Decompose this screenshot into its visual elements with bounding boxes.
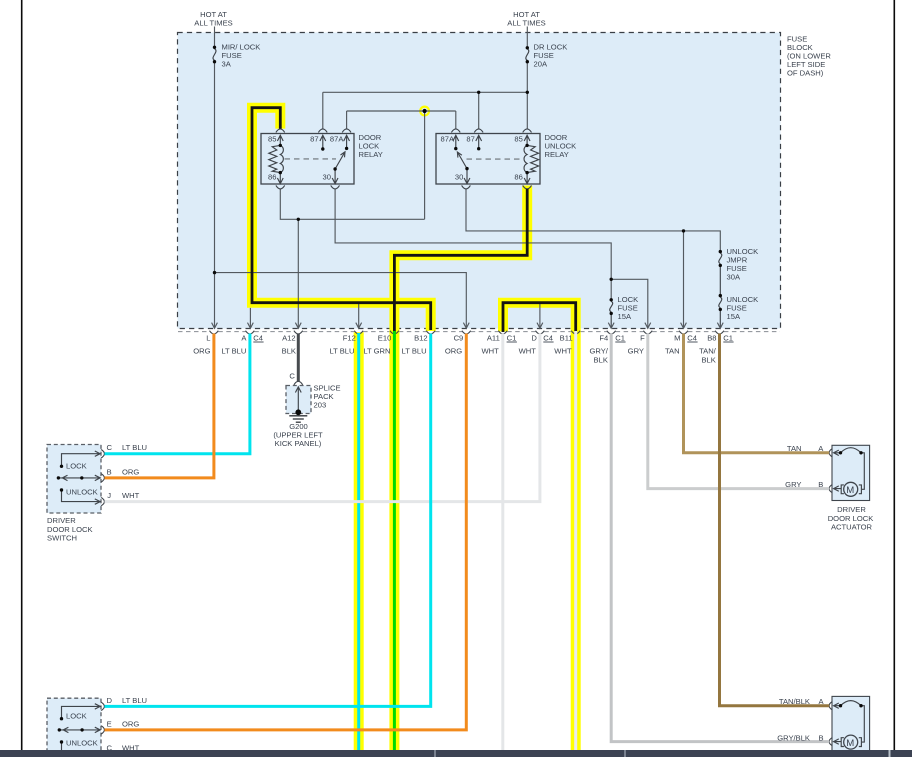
wire TAN M C4 to driver actuator A: [684, 334, 830, 453]
svg-text:ALL TIMES: ALL TIMES: [194, 19, 232, 28]
svg-text:85: 85: [514, 135, 522, 144]
pin B arrow and lead: [834, 739, 841, 744]
svg-text:A12: A12: [282, 333, 296, 342]
wire lock contact to D: [62, 704, 101, 719]
wire dome to motor: [861, 706, 864, 742]
highlight trace: relay1 85 to B12 (yellow band): [252, 108, 431, 331]
svg-text:F: F: [640, 333, 645, 342]
node actuator2 dome left: [839, 704, 842, 707]
node S1 arm right: [80, 476, 83, 479]
svg-text:LT BLU: LT BLU: [402, 347, 427, 356]
wire highlighted black core relay1 85 to B12: [252, 108, 431, 330]
wire relay1 30 net to lock fuse and F pin: [335, 189, 648, 328]
svg-text:ORG: ORG: [122, 720, 139, 729]
relay1 pin 86 lead: [277, 173, 283, 184]
relay2 pin 86 lead: [524, 173, 530, 184]
node lock fuse bottom: [610, 312, 613, 315]
wire thin feed to A C4 pin: [249, 308, 251, 328]
svg-text:F4: F4: [599, 333, 608, 342]
resistor coil relay1: [269, 145, 281, 172]
ground G200: [289, 416, 307, 422]
svg-text:LT BLU: LT BLU: [122, 696, 147, 705]
svg-text:LT BLU: LT BLU: [221, 347, 246, 356]
relay2 pin 87A lead: [453, 135, 459, 148]
svg-text:D: D: [106, 696, 112, 705]
node B+ net at 87: [477, 91, 480, 94]
motor brackets: [841, 485, 861, 494]
wire LT GRN E10 (highlighted): [393, 331, 396, 750]
splice pack arrow and lead: [295, 387, 301, 412]
node MIR fuse top: [213, 46, 216, 49]
wire TAN/BLK B8 C1 to passenger actuator A: [720, 334, 830, 706]
node S1 arm left: [57, 476, 60, 479]
svg-text:87: 87: [310, 135, 318, 144]
svg-text:ALL TIMES: ALL TIMES: [507, 19, 545, 28]
wire LT BLU B12 to passenger switch D: [105, 334, 431, 707]
wire LT BLU F12 (highlighted): [357, 333, 360, 750]
inductor arcs relay1: [280, 145, 283, 172]
svg-text:M: M: [674, 333, 680, 342]
svg-text:M: M: [846, 738, 854, 749]
wire WHT B11 (highlighted): [574, 331, 577, 750]
wire WHT D C4 to driver switch J: [105, 334, 540, 502]
svg-text:B8: B8: [707, 333, 716, 342]
wire MIR fuse to L pin: [214, 62, 216, 329]
wire GRY/BLK F4 C1 to passenger actuator B: [611, 334, 829, 742]
svg-text:E10: E10: [378, 333, 392, 342]
svg-text:RELAY: RELAY: [359, 150, 383, 159]
svg-text:WHT: WHT: [519, 347, 537, 356]
svg-text:D: D: [531, 333, 537, 342]
connector cups relay2 top: [451, 129, 531, 133]
pin A arrow and lead: [834, 450, 841, 455]
svg-text:87A: 87A: [441, 135, 455, 144]
node MIR fuse bottom: [213, 60, 216, 63]
svg-text:GRY: GRY: [628, 347, 644, 356]
svg-text:C4: C4: [543, 333, 553, 342]
svg-text:BLK: BLK: [701, 356, 715, 365]
pin B arrow and lead: [834, 486, 841, 491]
svg-text:UNLOCK: UNLOCK: [66, 487, 98, 496]
svg-text:TAN/BLK: TAN/BLK: [779, 697, 810, 706]
svg-text:LT GRN: LT GRN: [363, 347, 390, 356]
svg-text:LT BLU: LT BLU: [122, 443, 147, 452]
svg-text:WHT: WHT: [482, 347, 500, 356]
fuse MIR/LOCK 3A: [213, 49, 216, 60]
wire LT BLU A C4 to driver switch C: [105, 334, 250, 454]
driver door lock switch S1 dashed box: [47, 445, 101, 514]
node S2 arm left: [58, 728, 61, 731]
svg-text:OF DASH): OF DASH): [787, 69, 824, 78]
wire ORG C9 to passenger switch E: [105, 334, 467, 730]
svg-text:TAN: TAN: [787, 444, 802, 453]
svg-text:WHT: WHT: [122, 491, 140, 500]
motor M1 circle: [844, 482, 858, 496]
svg-text:3A: 3A: [222, 60, 232, 69]
svg-text:85: 85: [268, 135, 276, 144]
node relay2 coil bottom: [525, 171, 528, 174]
node ground net at A12: [297, 218, 300, 221]
highlight trace: F12 wire below block (yellow band): [354, 332, 364, 750]
node actuator1 dome left: [839, 451, 842, 454]
relay2 pin 87 lead: [476, 135, 482, 148]
svg-text:BLK: BLK: [282, 347, 296, 356]
svg-text:C4: C4: [253, 333, 263, 342]
svg-text:ORG: ORG: [193, 347, 210, 356]
highlight ring on splice node at 87A net: [420, 107, 429, 116]
svg-text:20A: 20A: [534, 60, 548, 69]
svg-text:GRY: GRY: [785, 480, 801, 489]
svg-text:30: 30: [323, 173, 331, 182]
svg-text:LOCK: LOCK: [66, 711, 87, 720]
svg-text:DRIVER: DRIVER: [47, 516, 76, 525]
svg-text:GRY/: GRY/: [589, 347, 608, 356]
node lock fuse top: [610, 298, 613, 301]
page right border: [893, 0, 895, 750]
svg-text:UNLOCK: UNLOCK: [66, 739, 98, 748]
wire lock contact to C: [62, 451, 101, 466]
svg-text:86: 86: [268, 173, 276, 182]
svg-text:C4: C4: [687, 333, 697, 342]
svg-text:B: B: [818, 733, 823, 742]
wire common arm to B: [58, 475, 100, 480]
relay1 pin 85 lead: [277, 135, 283, 145]
wire unlock contact down: [61, 742, 63, 752]
svg-text:C9: C9: [454, 333, 464, 342]
svg-text:ACTUATOR: ACTUATOR: [831, 523, 873, 532]
svg-text:RELAY: RELAY: [545, 150, 569, 159]
svg-text:15A: 15A: [727, 312, 741, 321]
svg-text:M: M: [846, 485, 854, 496]
svg-text:DOOR LOCK: DOOR LOCK: [47, 525, 93, 534]
op-amp? no: relay box U1 DOOR LOCK RELAY: [261, 134, 354, 185]
taskbar sliver: [0, 750, 912, 757]
svg-text:J: J: [107, 491, 111, 500]
passenger door lock actuator M2 box: [832, 696, 870, 751]
svg-text:DOOR LOCK: DOOR LOCK: [828, 514, 874, 523]
relay2 dashed coil-arm link: [467, 158, 524, 160]
connector cups relay1 bottom: [276, 185, 340, 189]
wire relay1 86 to ground net and A12 drop: [280, 189, 424, 328]
highlight trace: A11 to B11 pi-shape and down (yellow band): [503, 303, 576, 750]
highlight trace: relay2 86 to E10 and down (yellow band): [394, 186, 527, 751]
node relay2 87: [477, 147, 480, 150]
node relay1 30: [333, 167, 336, 170]
actuator dome arc: [841, 448, 862, 453]
svg-text:C: C: [106, 443, 112, 452]
wire ORG L to driver switch B: [105, 334, 214, 478]
svg-text:C1: C1: [723, 333, 733, 342]
connector cups driver actuator: [829, 449, 832, 493]
driver actuator internals: [834, 448, 865, 494]
svg-text:E: E: [107, 720, 112, 729]
underlines for connector names: [253, 341, 733, 343]
motor brackets: [841, 738, 861, 747]
connector cups driver switch: [101, 450, 104, 506]
wire dome to motor: [861, 453, 864, 490]
node S2 unlock: [60, 740, 63, 743]
node unlock fuse top: [719, 294, 722, 297]
node S1 lock: [60, 465, 63, 468]
passenger switch internals: [59, 704, 100, 752]
node lock fuse tap: [610, 278, 613, 281]
node relay2 coil top: [525, 144, 528, 147]
relay2 pin 30 lead: [464, 169, 470, 184]
svg-text:LT BLU: LT BLU: [329, 347, 354, 356]
connector cup splice pack top: [294, 381, 303, 385]
svg-text:ORG: ORG: [122, 467, 139, 476]
connector cups passenger actuator: [829, 702, 832, 746]
svg-text:B: B: [818, 480, 823, 489]
driver switch internals: [58, 451, 100, 504]
splice pack 203 dashed box: [286, 386, 311, 414]
svg-text:86: 86: [514, 173, 522, 182]
wire highlighted black core A11 to B11: [503, 303, 576, 332]
svg-text:L: L: [206, 333, 210, 342]
relay2 pin 85 lead: [524, 135, 530, 145]
node relay1 coil bottom: [279, 171, 282, 174]
svg-text:ORG: ORG: [445, 347, 462, 356]
node relay1 87A: [345, 147, 348, 150]
node relay2 30: [465, 167, 468, 170]
node relay1 coil top: [279, 144, 282, 147]
wire feed HOT AT ALL TIMES right: [526, 27, 528, 48]
svg-text:DRIVER: DRIVER: [837, 505, 866, 514]
connector cups relay1 top: [276, 129, 351, 133]
svg-text:C1: C1: [615, 333, 625, 342]
actuator dome arc: [841, 701, 862, 706]
wire BLK A12 to splice pack: [297, 334, 300, 382]
relay1 switch arm: [335, 152, 345, 169]
wire thin feed to F12 pin: [358, 303, 360, 328]
passenger actuator internals: [834, 701, 865, 747]
node MIR net at L: [213, 271, 216, 274]
svg-text:30A: 30A: [727, 273, 741, 282]
svg-text:GRY/BLK: GRY/BLK: [777, 733, 810, 742]
wire GRY F to driver actuator B: [648, 334, 829, 489]
node actuator1 dome right: [859, 451, 862, 454]
motor M2 circle: [844, 735, 858, 749]
svg-text:203: 203: [314, 401, 327, 410]
svg-text:F12: F12: [343, 333, 356, 342]
node splice 87A net (highlighted): [423, 109, 427, 113]
wire unlock contact to J: [62, 490, 101, 504]
wire thin feed to D C4 pin: [539, 303, 541, 328]
node S2 lock: [60, 717, 63, 720]
svg-text:87: 87: [466, 135, 474, 144]
relay1 pin 30 lead: [332, 169, 338, 184]
wire feed HOT AT ALL TIMES left: [214, 27, 216, 48]
pin A arrow and lead: [834, 703, 841, 708]
node S1 unlock: [60, 488, 63, 491]
svg-text:A: A: [241, 333, 247, 342]
junction dots: [213, 46, 722, 315]
block bottom pin arrows: [212, 323, 724, 329]
svg-text:15A: 15A: [618, 312, 632, 321]
wire highlighted black core relay2 86 to E10: [394, 189, 527, 333]
fuse block (dashed box, on lower left side of dash): [178, 33, 781, 329]
wire WHT A11 to passenger switch C: [501, 334, 504, 751]
resistor coil relay2: [527, 145, 539, 172]
svg-text:KICK PANEL): KICK PANEL): [275, 439, 322, 448]
svg-text:LOCK: LOCK: [66, 462, 87, 471]
svg-text:C: C: [289, 372, 295, 381]
svg-text:BLK: BLK: [594, 356, 608, 365]
connector row dashed line under fuse block: [178, 331, 780, 333]
driver door lock actuator M1 box: [832, 445, 870, 500]
passenger door lock switch S2 dashed box: [47, 698, 101, 756]
node jmpr fuse bottom: [719, 264, 722, 267]
wire net 87A-87A with splice drop: [347, 111, 456, 219]
svg-text:SWITCH: SWITCH: [47, 534, 77, 543]
page left border: [21, 0, 23, 750]
node actuator2 dome right: [859, 704, 862, 707]
relay1 dashed coil-arm link: [285, 158, 337, 160]
svg-text:B11: B11: [560, 333, 573, 342]
wire MIR net branch to C9: [215, 273, 467, 329]
fuse UNLOCK JMPR 30A: [719, 253, 722, 296]
connector cups fuse block bottom row: [210, 331, 724, 334]
fuse LOCK 15A: [610, 301, 613, 328]
node unlock fuse bottom: [719, 308, 722, 311]
wire DR fuse down to relay2 pin 85: [526, 62, 528, 129]
node DR fuse bottom: [526, 60, 529, 63]
relay2 switch arm: [457, 152, 467, 169]
svg-text:B12: B12: [414, 333, 428, 342]
svg-text:87A: 87A: [330, 135, 344, 144]
relay box U2 DOOR UNLOCK RELAY: [436, 134, 540, 185]
fuse DR LOCK 20A: [526, 49, 529, 60]
node tan tap: [682, 229, 685, 232]
svg-text:A11: A11: [487, 333, 500, 342]
node jmpr fuse top: [719, 250, 722, 253]
svg-text:WHT: WHT: [554, 347, 572, 356]
node relay2 87A: [454, 147, 457, 150]
relay1 pin 87 lead: [320, 135, 326, 149]
wire net B+ to relay 87 pins: [323, 92, 528, 128]
wire relay2 30 net to unlock fuses and M pin: [466, 189, 720, 328]
svg-text:TAN: TAN: [665, 347, 680, 356]
fuse UNLOCK 15A: [719, 297, 722, 328]
node S2 arm right: [80, 728, 83, 731]
node relay1 87: [321, 147, 324, 150]
inductor arcs relay2: [524, 145, 527, 172]
wire common arm to E: [59, 727, 100, 732]
node B+ net at 85: [526, 91, 529, 94]
relay1 pin 87A lead: [344, 135, 350, 148]
svg-text:30: 30: [455, 173, 463, 182]
svg-text:B: B: [107, 467, 112, 476]
node DR fuse top: [526, 46, 529, 49]
svg-text:TAN/: TAN/: [699, 347, 717, 356]
connector cups relay2 bottom: [462, 185, 532, 189]
node splice G200 dot: [295, 409, 301, 415]
connector cups passenger switch: [101, 702, 104, 734]
svg-text:C1: C1: [507, 333, 517, 342]
